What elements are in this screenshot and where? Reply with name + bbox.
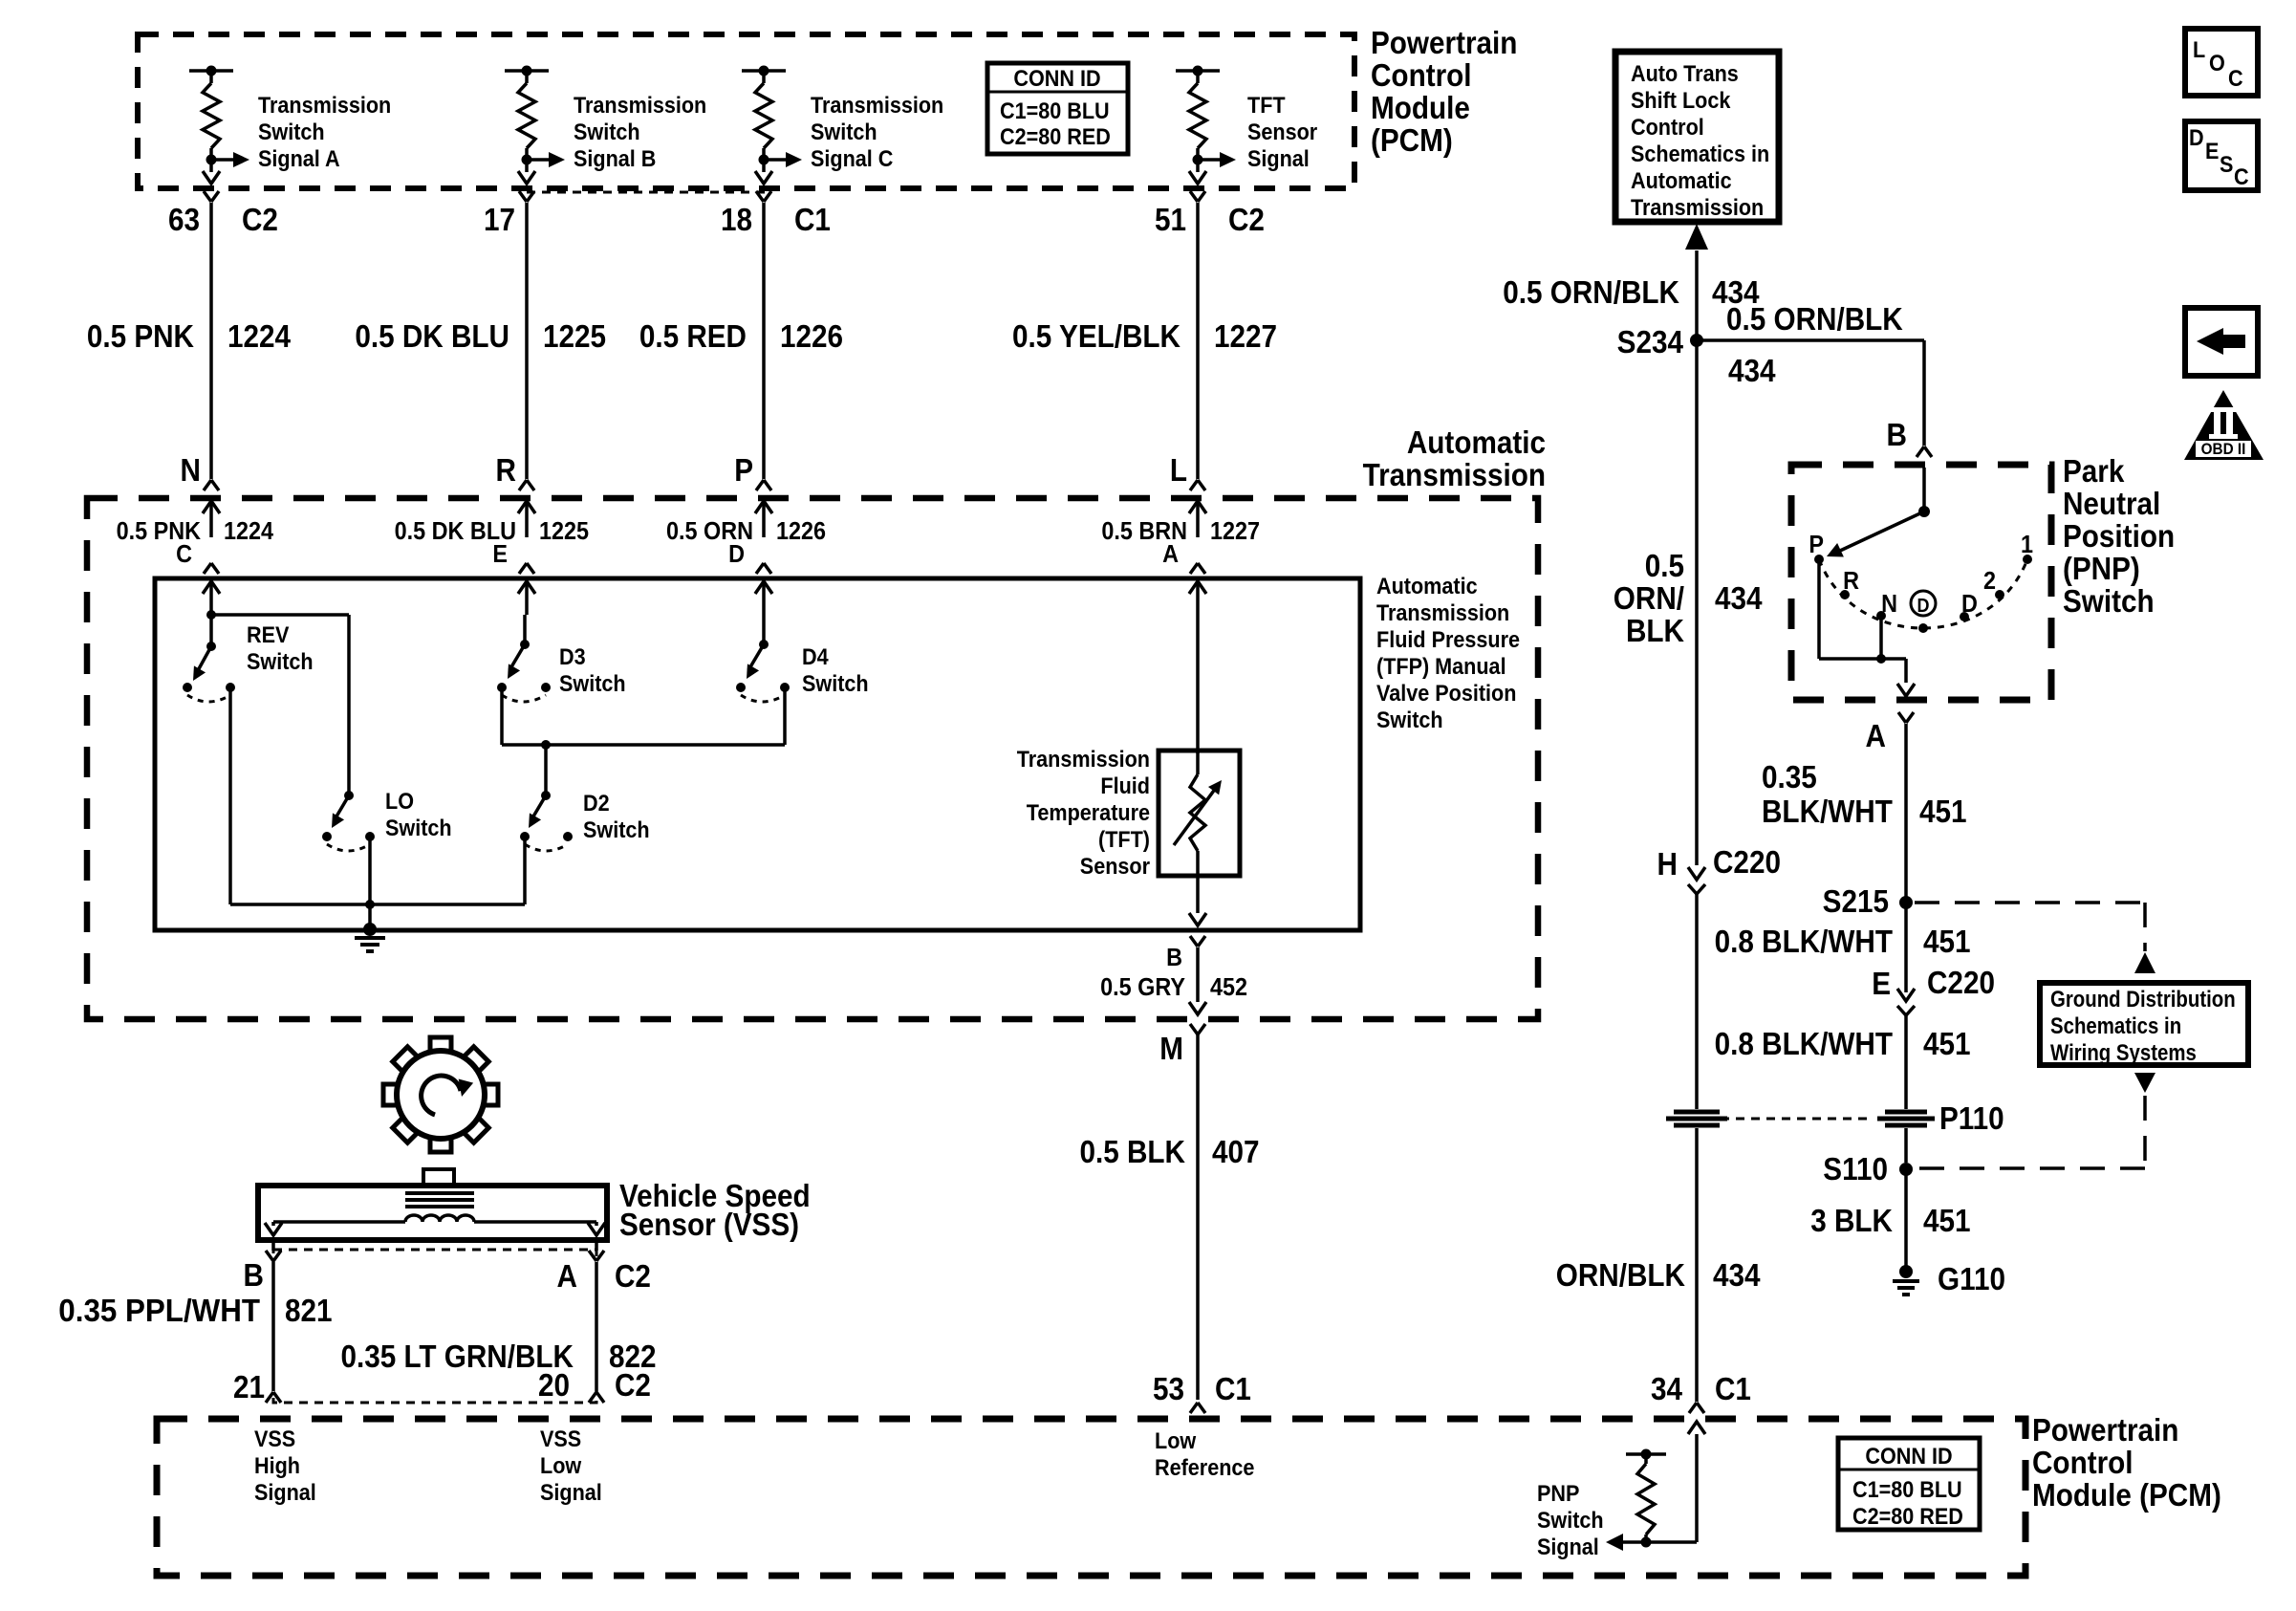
transmission pin L xyxy=(1170,453,1205,490)
svg-text:53: 53 xyxy=(1153,1372,1184,1407)
arrow into transmission pin R xyxy=(518,501,535,537)
label Transmission Switch Signal B xyxy=(574,92,706,171)
svg-text:S110: S110 xyxy=(1823,1152,1888,1187)
svg-text:E: E xyxy=(492,541,508,568)
VSS coil xyxy=(405,1215,474,1222)
svg-text:B: B xyxy=(244,1258,264,1294)
junction xyxy=(365,900,375,929)
wire xyxy=(209,615,213,646)
svg-text:R: R xyxy=(1843,568,1859,595)
wire label 0.35 BLK/WHT 451 xyxy=(1762,760,1967,830)
svg-text:Position: Position xyxy=(2063,519,2175,555)
svg-text:Park: Park xyxy=(2063,454,2125,490)
wire from D3 switch xyxy=(502,687,785,745)
PCM module box (top) xyxy=(138,34,1354,188)
svg-text:BLK/WHT: BLK/WHT xyxy=(1762,795,1893,830)
connector fork A at TFP switch xyxy=(1190,563,1205,574)
svg-text:Switch: Switch xyxy=(559,670,626,696)
svg-text:D3: D3 xyxy=(559,643,586,669)
wire 0.8 BLK/WHT 451 (lower) xyxy=(1904,1031,1908,1163)
svg-text:CONN ID: CONN ID xyxy=(1865,1443,1952,1469)
connector pin 20 C2 xyxy=(538,1368,651,1404)
PCM label (top) xyxy=(1371,26,1517,159)
connector E C220 xyxy=(1872,966,1995,1031)
svg-text:Low: Low xyxy=(1155,1427,1196,1453)
svg-text:1227: 1227 xyxy=(1210,518,1260,545)
svg-text:C220: C220 xyxy=(1927,966,1995,1001)
svg-text:0.35 PPL/WHT: 0.35 PPL/WHT xyxy=(58,1293,260,1328)
wire from LO switch xyxy=(368,837,372,904)
svg-text:1226: 1226 xyxy=(776,518,826,545)
svg-text:S234: S234 xyxy=(1617,325,1684,360)
REV switch xyxy=(183,642,235,702)
svg-text:High: High xyxy=(254,1452,300,1478)
ground G110 xyxy=(1893,1262,2005,1297)
PNP contact 2 xyxy=(1983,568,2004,599)
svg-text:Module: Module xyxy=(1371,91,1470,126)
PNP contact N xyxy=(1876,591,1897,620)
wire from D4 switch xyxy=(783,687,787,745)
label D3 Switch xyxy=(559,643,626,696)
svg-text:D: D xyxy=(1961,591,1978,618)
connector fork D at TFP switch xyxy=(756,563,771,574)
transmission pin N xyxy=(181,453,219,490)
wire label 0.35 PPL/WHT 821 xyxy=(58,1293,332,1328)
svg-text:C2=80 RED: C2=80 RED xyxy=(1000,123,1111,149)
svg-text:Switch: Switch xyxy=(574,119,640,144)
svg-text:Shift Lock: Shift Lock xyxy=(1631,87,1731,113)
pin label 17 xyxy=(484,203,515,238)
svg-text:C220: C220 xyxy=(1713,845,1781,881)
svg-text:20: 20 xyxy=(538,1368,570,1404)
svg-text:G110: G110 xyxy=(1938,1262,2005,1297)
svg-text:Automatic: Automatic xyxy=(1407,425,1546,461)
svg-text:Auto Trans: Auto Trans xyxy=(1631,60,1739,86)
inner wire label 0.5 ORN 1226 xyxy=(666,518,826,545)
svg-text:51: 51 xyxy=(1155,203,1186,238)
pin label 18 C1 xyxy=(721,203,831,238)
connector pin B at TFP switch xyxy=(1166,936,1205,971)
wire label 0.5 PNK 1224 xyxy=(87,319,292,355)
svg-text:Reference: Reference xyxy=(1155,1454,1254,1480)
VSS stem xyxy=(423,1169,454,1186)
svg-text:Sensor (VSS): Sensor (VSS) xyxy=(619,1208,799,1243)
wire 0.5 DK BLU 1225 xyxy=(525,203,529,479)
label REV Switch xyxy=(247,621,314,674)
svg-text:Sensor: Sensor xyxy=(1247,119,1317,144)
svg-text:Temperature: Temperature xyxy=(1027,799,1150,825)
svg-text:Control: Control xyxy=(1631,114,1704,140)
wire label 0.5 RED 1226 xyxy=(639,319,843,355)
resistor: Transmission Switch Signal A xyxy=(189,66,249,185)
svg-text:21: 21 xyxy=(233,1370,265,1405)
PCM label (bottom) xyxy=(2032,1413,2221,1513)
svg-text:Transmission: Transmission xyxy=(811,92,943,118)
PNP contact D drive xyxy=(1911,591,1936,633)
svg-text:E: E xyxy=(1872,967,1891,1002)
label TFT Sensor Signal xyxy=(1247,92,1317,171)
svg-text:L: L xyxy=(1170,453,1187,489)
svg-text:1225: 1225 xyxy=(539,518,589,545)
svg-text:C2: C2 xyxy=(615,1259,651,1295)
resistor: TFT Sensor Signal xyxy=(1176,66,1236,185)
svg-text:Signal A: Signal A xyxy=(258,145,340,171)
wire label 0.8 BLK/WHT 451 (lower) xyxy=(1715,1027,1971,1062)
connector pin 53 C1 xyxy=(1153,1372,1251,1413)
wire ORN/BLK 434 to PCM xyxy=(1695,1128,1699,1402)
VSS connector dashed box xyxy=(273,1250,596,1403)
ground distribution dashed link (S110) xyxy=(1914,1073,2155,1168)
svg-text:Switch: Switch xyxy=(258,119,325,144)
wire xyxy=(762,615,766,644)
svg-text:(PNP): (PNP) xyxy=(2063,552,2140,587)
svg-text:Control: Control xyxy=(2032,1446,2134,1481)
svg-text:Signal: Signal xyxy=(1537,1534,1599,1559)
svg-text:Transmission: Transmission xyxy=(1376,599,1509,625)
svg-text:434: 434 xyxy=(1713,1258,1761,1294)
svg-text:D2: D2 xyxy=(583,790,610,816)
svg-text:0.5 ORN/BLK: 0.5 ORN/BLK xyxy=(1503,275,1679,311)
TFP switch label xyxy=(1376,573,1520,732)
resistor: Transmission Switch Signal C xyxy=(742,66,802,185)
svg-text:Module (PCM): Module (PCM) xyxy=(2032,1478,2221,1513)
svg-text:Signal: Signal xyxy=(1247,145,1310,171)
Auto Trans Shift Lock box xyxy=(1615,52,1779,222)
transmission pin R xyxy=(496,453,534,490)
svg-text:D4: D4 xyxy=(802,643,829,669)
wire 34 to PNP resistor xyxy=(1688,1422,1705,1542)
junction node on wire C xyxy=(206,610,349,620)
inline connector P110 (left) xyxy=(1666,1112,1727,1125)
label LO Switch xyxy=(385,788,452,840)
D2 switch xyxy=(520,791,573,851)
svg-text:Ground Distribution: Ground Distribution xyxy=(2050,986,2236,1012)
svg-text:REV: REV xyxy=(247,621,290,647)
VSS lead B xyxy=(265,1222,405,1235)
resistor: Transmission Switch Signal B xyxy=(505,66,565,185)
wire from REV switch xyxy=(230,687,525,904)
arrow into transmission pin N xyxy=(203,501,220,537)
pin label 63 C2 xyxy=(168,203,278,238)
svg-text:Signal B: Signal B xyxy=(574,145,656,171)
wire to TFT sensor xyxy=(1196,615,1200,753)
svg-text:Signal: Signal xyxy=(254,1479,316,1505)
inner wire label 0.5 BRN 1227 xyxy=(1101,518,1260,545)
label D4 Switch xyxy=(802,643,869,696)
wire 0.5 BLK 407 xyxy=(1196,1034,1200,1400)
svg-text:OBD II: OBD II xyxy=(2201,440,2246,458)
svg-text:Signal C: Signal C xyxy=(811,145,893,171)
label VSS High Signal xyxy=(254,1426,316,1505)
CONN ID box (bottom) xyxy=(1838,1438,1980,1530)
svg-text:63: 63 xyxy=(168,203,200,238)
svg-text:Transmission: Transmission xyxy=(1631,194,1764,220)
VSS body box xyxy=(258,1186,607,1240)
arrow into transmission pin P xyxy=(755,501,772,537)
label D2 Switch xyxy=(583,790,650,842)
svg-text:Switch: Switch xyxy=(802,670,869,696)
wire ORN/BLK 434 down xyxy=(1695,340,1699,865)
svg-text:VSS: VSS xyxy=(254,1426,295,1451)
connector pin B xyxy=(244,1240,281,1293)
node S234 xyxy=(1617,325,1703,360)
PNP switch blade xyxy=(1824,506,1930,563)
arrow into TFP switch at D xyxy=(755,581,772,615)
svg-text:451: 451 xyxy=(1923,925,1971,960)
svg-text:C2: C2 xyxy=(242,203,278,238)
svg-text:Fluid: Fluid xyxy=(1100,773,1150,798)
Ground Distribution box xyxy=(2040,983,2248,1065)
ground in TFP switch xyxy=(355,923,385,951)
svg-text:C1: C1 xyxy=(1215,1372,1251,1407)
TFT sensor box xyxy=(1159,751,1240,876)
svg-text:451: 451 xyxy=(1923,1204,1971,1239)
svg-text:2: 2 xyxy=(1983,568,1996,595)
svg-text:Low: Low xyxy=(540,1452,581,1478)
svg-text:D: D xyxy=(1917,596,1930,617)
connector pin A at PNP switch xyxy=(1866,712,1914,753)
svg-text:O: O xyxy=(2209,50,2225,76)
wire label 0.5 BLK 407 xyxy=(1079,1135,1259,1170)
inner wire label 0.5 DK BLU 1225 xyxy=(395,518,590,545)
svg-text:C: C xyxy=(2228,65,2243,91)
svg-text:0.5 GRY: 0.5 GRY xyxy=(1100,974,1185,1001)
svg-text:H: H xyxy=(1657,847,1678,882)
svg-text:S215: S215 xyxy=(1823,884,1889,920)
back arrow symbol box xyxy=(2185,308,2258,376)
svg-text:Transmission: Transmission xyxy=(258,92,391,118)
PCM module box (bottom) xyxy=(157,1419,2025,1576)
svg-text:M: M xyxy=(1159,1032,1183,1067)
svg-text:0.5 YEL/BLK: 0.5 YEL/BLK xyxy=(1012,319,1180,355)
svg-text:P: P xyxy=(1809,532,1824,558)
wire 0.35 LT GRN/BLK 822 xyxy=(595,1262,598,1391)
wire 0.35 PPL/WHT 821 xyxy=(271,1262,275,1391)
svg-text:434: 434 xyxy=(1715,581,1763,617)
svg-text:N: N xyxy=(181,453,201,489)
label Transmission Switch Signal C xyxy=(811,92,943,171)
connector pin 18 at PCM xyxy=(756,191,771,202)
wire label 0.5 ORN/BLK 434 (vertical) xyxy=(1614,549,1763,649)
LO switch xyxy=(322,791,375,851)
svg-text:0.8 BLK/WHT: 0.8 BLK/WHT xyxy=(1715,925,1893,960)
svg-text:451: 451 xyxy=(1923,1027,1971,1062)
svg-text:0.5 PNK: 0.5 PNK xyxy=(87,319,195,355)
ground distribution dashed link (S215) xyxy=(1915,903,2155,973)
connector H C220 xyxy=(1657,845,1781,1109)
VSS lead A xyxy=(474,1222,605,1235)
DESC symbol box xyxy=(2185,121,2258,190)
wire from PNP contact N xyxy=(1876,616,1886,664)
svg-text:ORN/: ORN/ xyxy=(1614,581,1684,617)
connector pin 34 C1 xyxy=(1651,1372,1751,1413)
svg-text:R: R xyxy=(496,453,517,489)
transmission pin P xyxy=(734,453,771,490)
svg-text:C: C xyxy=(2234,163,2249,189)
connector fork C at TFP switch xyxy=(204,563,219,574)
P110 dashed link xyxy=(1721,1118,1872,1121)
wire xyxy=(523,615,527,644)
label Transmission Switch Signal A xyxy=(258,92,391,171)
arrow into TFP switch at E xyxy=(518,581,535,615)
Automatic Transmission box xyxy=(87,498,1538,1019)
inner pin letter C xyxy=(176,541,192,568)
svg-text:P: P xyxy=(734,453,753,489)
svg-text:Signal: Signal xyxy=(540,1479,602,1505)
svg-text:E: E xyxy=(2205,138,2219,163)
svg-text:1224: 1224 xyxy=(224,518,273,545)
wire label 0.8 BLK/WHT 451 (upper) xyxy=(1715,925,1971,960)
svg-text:Control: Control xyxy=(1371,58,1472,94)
junction xyxy=(541,740,551,795)
resistor: PNP Switch Signal xyxy=(1606,1449,1697,1552)
svg-text:Transmission: Transmission xyxy=(574,92,706,118)
wire 0.5 YEL/BLK 1227 xyxy=(1196,203,1200,479)
connector pin B at PNP switch xyxy=(1887,418,1932,457)
svg-text:434: 434 xyxy=(1728,354,1776,389)
wire label 0.35 LT GRN/BLK 822 xyxy=(340,1339,656,1375)
arrow into transmission pin L xyxy=(1189,501,1206,537)
connector pin 21 xyxy=(233,1370,281,1405)
svg-text:1: 1 xyxy=(2021,532,2033,558)
svg-text:Schematics in: Schematics in xyxy=(2050,1012,2181,1038)
svg-text:Switch: Switch xyxy=(583,816,650,842)
svg-text:Switch: Switch xyxy=(2063,584,2155,620)
wire into PNP switch xyxy=(1922,468,1926,512)
inline connector P110 (right) xyxy=(1877,1101,2004,1137)
wire 0.5 PNK 1224 xyxy=(209,203,213,479)
node S110 xyxy=(1823,1152,1913,1187)
inner pin letter A xyxy=(1162,541,1179,568)
svg-text:ORN/BLK: ORN/BLK xyxy=(1556,1258,1686,1294)
svg-text:Switch: Switch xyxy=(247,648,314,674)
connector C1 dashed outline xyxy=(527,191,770,194)
svg-text:Wiring Systems: Wiring Systems xyxy=(2050,1039,2197,1065)
svg-text:(TFT): (TFT) xyxy=(1098,826,1150,852)
svg-text:PNP: PNP xyxy=(1537,1480,1579,1506)
PNP contact 1 xyxy=(2021,532,2033,564)
svg-text:D: D xyxy=(728,541,745,568)
svg-text:3 BLK: 3 BLK xyxy=(1810,1204,1893,1239)
wire label 0.5 DK BLU 1225 xyxy=(355,319,606,355)
wire 0.8 BLK/WHT 451 (upper) xyxy=(1904,903,1908,992)
label Transmission Fluid Temperature (TFT) Sensor xyxy=(1017,746,1150,879)
svg-text:Automatic: Automatic xyxy=(1631,167,1732,193)
D4 switch xyxy=(736,640,790,702)
svg-text:Schematics in: Schematics in xyxy=(1631,141,1769,166)
svg-text:P110: P110 xyxy=(1939,1101,2004,1137)
wire to LO switch xyxy=(347,615,351,795)
svg-text:BLK: BLK xyxy=(1626,614,1684,649)
svg-text:D: D xyxy=(2189,124,2204,150)
svg-text:C2: C2 xyxy=(615,1368,651,1404)
svg-text:B: B xyxy=(1166,945,1182,971)
svg-text:451: 451 xyxy=(1919,795,1967,830)
svg-text:Powertrain: Powertrain xyxy=(1371,26,1517,61)
svg-text:C1=80 BLU: C1=80 BLU xyxy=(1852,1476,1962,1502)
svg-text:Fluid Pressure: Fluid Pressure xyxy=(1376,626,1520,652)
connector pin 51 at PCM xyxy=(1190,191,1205,202)
svg-text:VSS: VSS xyxy=(540,1426,581,1451)
svg-text:Switch: Switch xyxy=(1376,707,1443,732)
wire from D2 switch xyxy=(523,837,527,904)
VSS core bars xyxy=(405,1193,474,1207)
wire label 0.5 ORN/BLK 434 (branch) xyxy=(1726,302,1903,389)
PNP contact D xyxy=(1960,591,1978,621)
svg-text:C: C xyxy=(176,541,192,568)
wire label 3 BLK 451 xyxy=(1810,1204,1970,1239)
svg-text:C2=80 RED: C2=80 RED xyxy=(1852,1503,1963,1529)
svg-text:S: S xyxy=(2220,151,2233,177)
TFT thermistor xyxy=(1174,751,1227,876)
svg-text:Transmission: Transmission xyxy=(1363,458,1546,493)
VSS reluctor gear xyxy=(383,1037,498,1152)
svg-text:0.8 BLK/WHT: 0.8 BLK/WHT xyxy=(1715,1027,1893,1062)
arrow into TFP switch at A xyxy=(1189,581,1206,615)
svg-text:A: A xyxy=(1162,541,1179,568)
svg-text:0.5: 0.5 xyxy=(1645,549,1684,584)
svg-text:18: 18 xyxy=(721,203,752,238)
svg-text:(TFP) Manual: (TFP) Manual xyxy=(1376,653,1506,679)
OBD II symbol xyxy=(2184,390,2264,460)
svg-text:C1: C1 xyxy=(794,203,831,238)
svg-text:A: A xyxy=(1866,719,1886,754)
connector pin A C2 xyxy=(557,1240,651,1294)
label Park Neutral Position (PNP) Switch xyxy=(2063,454,2175,620)
TFP manual valve position switch box xyxy=(155,578,1360,930)
svg-text:LO: LO xyxy=(385,788,414,814)
inner pin letter E xyxy=(492,541,508,568)
CONN ID box (top) xyxy=(987,63,1128,154)
svg-text:34: 34 xyxy=(1651,1372,1683,1407)
wire to Auto Trans Shift Lock box xyxy=(1685,224,1708,340)
svg-text:452: 452 xyxy=(1210,974,1247,1001)
svg-text:(PCM): (PCM) xyxy=(1371,123,1453,159)
wire label 0.5 GRY 452 xyxy=(1100,974,1247,1001)
svg-text:Sensor: Sensor xyxy=(1080,853,1150,879)
connector pin 17 at PCM xyxy=(519,191,534,202)
svg-text:Switch: Switch xyxy=(1537,1507,1604,1533)
label PNP Switch Signal xyxy=(1537,1480,1604,1559)
svg-text:0.35: 0.35 xyxy=(1762,760,1817,795)
inner wire label 0.5 PNK 1224 xyxy=(117,518,274,545)
svg-text:0.5 ORN/BLK: 0.5 ORN/BLK xyxy=(1726,302,1903,337)
label VSS Low Signal xyxy=(540,1426,602,1505)
svg-text:0.5 RED: 0.5 RED xyxy=(639,319,747,355)
svg-text:0.5 BLK: 0.5 BLK xyxy=(1079,1135,1185,1170)
svg-text:Neutral: Neutral xyxy=(2063,487,2160,522)
svg-text:Switch: Switch xyxy=(385,815,452,840)
transmission pin M xyxy=(1159,1024,1205,1066)
connector fork E at TFP switch xyxy=(519,563,534,574)
svg-text:407: 407 xyxy=(1212,1135,1260,1170)
wire label 0.5 YEL/BLK 1227 xyxy=(1012,319,1277,355)
svg-text:Powertrain: Powertrain xyxy=(2032,1413,2178,1448)
svg-text:L: L xyxy=(2193,36,2205,62)
wire 0.35 BLK/WHT 451 xyxy=(1904,724,1908,903)
svg-text:Transmission: Transmission xyxy=(1017,746,1150,772)
svg-text:1226: 1226 xyxy=(780,319,843,355)
svg-text:1224: 1224 xyxy=(227,319,292,355)
svg-text:N: N xyxy=(1881,591,1897,618)
wire from PNP contact P xyxy=(1819,559,1906,659)
svg-text:CONN ID: CONN ID xyxy=(1013,65,1100,91)
wire label 0.5 ORN/BLK 434 (top) xyxy=(1503,275,1760,311)
node S215 xyxy=(1823,884,1913,920)
svg-text:B: B xyxy=(1887,418,1907,453)
wire 0.5 GRY 452 xyxy=(1189,947,1206,1014)
svg-text:1225: 1225 xyxy=(543,319,606,355)
